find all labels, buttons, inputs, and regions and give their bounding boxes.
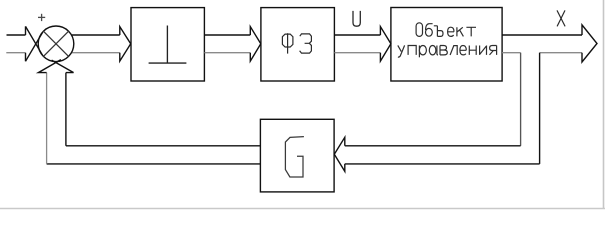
arrowhead into relay block <box>120 27 131 62</box>
page bottom border <box>0 208 605 210</box>
wire FZ to object bottom <box>334 52 380 54</box>
object label line1 Объект <box>416 23 476 37</box>
plus sign label <box>38 14 45 21</box>
feedback run right top line <box>345 145 521 147</box>
FZ block box <box>261 8 335 81</box>
summing junction X diagonal 1 <box>43 31 68 56</box>
arrowhead into summing junction base notches <box>25 26 27 61</box>
wire output bottom segment 2 <box>540 52 582 54</box>
wire output bottom segment 1 <box>502 52 520 54</box>
G block box <box>260 119 334 192</box>
wire summing junction to relay block bottom <box>70 52 120 54</box>
feedback left vertical outer <box>46 73 48 164</box>
feedback branch vertical inner <box>520 53 522 146</box>
wire output top line <box>502 34 582 36</box>
feedback branch vertical outer <box>539 53 541 164</box>
summing junction circle <box>38 26 74 62</box>
feedback run left top line <box>66 145 261 147</box>
G symbol <box>285 137 304 177</box>
arrowhead into G block <box>334 137 345 171</box>
label X <box>557 10 565 26</box>
label U <box>353 11 360 26</box>
feedback run left bottom line <box>47 163 261 165</box>
arrowhead into FZ block <box>250 27 260 62</box>
wire input top line <box>7 34 26 36</box>
wire FZ to object top <box>334 34 380 36</box>
FZ label letter F <box>282 33 293 53</box>
output arrowhead <box>582 25 597 62</box>
relay symbol horizontal <box>149 62 187 64</box>
wire relay to FZ bottom <box>204 52 250 54</box>
wire relay to FZ top <box>204 34 250 36</box>
wire input bottom line <box>6 52 25 54</box>
feedback left vertical inner <box>65 73 67 146</box>
page right border <box>603 0 605 209</box>
relay block box <box>131 8 204 81</box>
object block box <box>391 8 502 82</box>
arrowhead into object block <box>380 27 391 62</box>
summing junction X diagonal 2 <box>43 31 68 56</box>
feedback run right bottom line <box>345 163 540 165</box>
FZ label letter Z <box>300 34 312 53</box>
object label line2 управления <box>398 45 497 57</box>
wire summing junction to relay block top <box>70 34 120 36</box>
arrowhead into summing junction crossing slants <box>26 26 43 61</box>
relay symbol vertical <box>166 26 168 64</box>
arrowhead up into summing junction <box>38 60 73 73</box>
